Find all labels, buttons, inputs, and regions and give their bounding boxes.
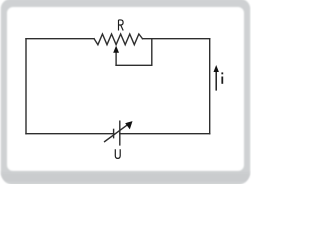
resistor R bbox=[94, 34, 142, 45]
wire bottom-right segment bbox=[120, 133, 210, 135]
wire top-left segment bbox=[26, 38, 94, 40]
voltage source U short plate bbox=[113, 129, 115, 137]
rheostat wiper arrow stem bbox=[115, 52, 117, 66]
wire left side bbox=[25, 39, 27, 134]
voltage source adjustment arrowhead bbox=[125, 121, 132, 129]
label i bbox=[221, 72, 223, 83]
current arrow i head bbox=[214, 65, 219, 72]
wire right side bbox=[209, 39, 211, 134]
wire top-right segment bbox=[143, 38, 210, 40]
label R bbox=[119, 20, 124, 31]
rheostat wiper arrowhead bbox=[113, 46, 119, 53]
current arrow i shaft bbox=[215, 72, 217, 91]
voltage source adjustment arrow shaft bbox=[105, 125, 128, 142]
voltage source U long plate bbox=[119, 121, 121, 145]
wire wiper loop bbox=[116, 39, 152, 65]
label U bbox=[115, 149, 120, 158]
wire bottom-left segment bbox=[26, 133, 114, 135]
